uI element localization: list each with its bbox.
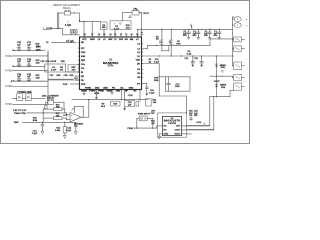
svg-text:+C18: +C18 [127,95,133,97]
svg-text:PWM: PWM [127,128,133,130]
svg-text:PGND: PGND [85,88,92,90]
svg-text:L_LOOP: L_LOOP [43,29,52,31]
svg-text:VOUT: VOUT [214,81,221,83]
svg-text:PVIN3: PVIN3 [6,69,14,72]
svg-text:PVIN4: PVIN4 [6,55,14,58]
svg-text:50V: 50V [193,35,197,37]
svg-text:50V: 50V [204,35,208,37]
svg-text:INDUCTOR CURRENT: INDUCTOR CURRENT [53,3,80,7]
svg-text:10nF: 10nF [175,86,180,88]
svg-text:PWM CTRL: PWM CTRL [14,113,26,115]
svg-text:50V: 50V [183,35,187,37]
svg-text:GND: GND [116,91,121,93]
svg-text:GND: GND [129,88,134,90]
svg-text:0Ω: 0Ω [156,39,159,41]
svg-text:OUT: OUT [176,126,181,128]
svg-text:GND: GND [14,122,19,124]
svg-text:4.7µF: 4.7µF [114,28,120,30]
svg-text:MAX4230: MAX4230 [74,122,84,125]
svg-text:POWER-ONE: POWER-ONE [17,92,32,94]
svg-text:POK: POK [81,84,86,86]
svg-text:PVIN2: PVIN2 [6,85,14,88]
svg-text:5VIN: 5VIN [36,47,41,49]
svg-text:0.1µF: 0.1µF [66,130,72,132]
svg-text:1%: 1% [189,115,192,117]
svg-text:DH: DH [137,63,141,65]
svg-text:GND: GND [103,88,108,90]
svg-text:ADJ: ADJ [72,69,76,72]
svg-text:PVIN1: PVIN1 [6,103,14,106]
svg-text:0.1µF: 0.1µF [149,92,155,94]
svg-text:SGND: SGND [81,91,88,93]
svg-text:FDS: FDS [176,44,181,46]
svg-text:1Ω: 1Ω [148,62,151,64]
svg-text:VOUT: VOUT [143,13,150,15]
svg-text:OFF: OFF [151,113,156,115]
svg-text:POK: POK [63,84,68,86]
svg-text:SGND: SGND [106,91,113,93]
svg-text:C9 R8: C9 R8 [50,61,57,63]
svg-text:C7 1µF: C7 1µF [66,41,74,43]
svg-text:ETP+: ETP+ [108,66,114,68]
svg-text:GND: GND [95,88,100,90]
svg-text:ROUT: ROUT [175,134,182,136]
svg-text:GND: GND [164,134,169,136]
svg-text:PG: PG [112,88,115,90]
svg-text:0.1%: 0.1% [196,122,201,124]
svg-text:10Ω: 10Ω [126,28,130,30]
svg-text:CS-: CS- [81,68,85,70]
svg-text:PWM INPUT: PWM INPUT [138,114,151,116]
svg-text:(50mA): (50mA) [63,7,71,10]
svg-text:ILIM: ILIM [81,56,85,58]
svg-text:AVIN: AVIN [36,49,41,52]
svg-text:PGND: PGND [98,91,105,93]
svg-text:TSOT23: TSOT23 [168,123,177,125]
svg-text:10Ω: 10Ω [36,77,40,79]
svg-text:SD: SD [81,42,84,44]
svg-text:VCC: VCC [82,39,87,41]
svg-text:0.1Ω: 0.1Ω [187,54,192,56]
svg-text:16V: 16V [194,115,198,117]
svg-text:OVP: OVP [119,39,124,41]
svg-text:REF: REF [81,60,86,62]
svg-text:NC: NC [120,88,124,90]
svg-text:VDD: VDD [136,60,141,62]
svg-text:1.8V TO 3.3V: 1.8V TO 3.3V [13,110,27,112]
svg-text:0.1µF: 0.1µF [32,133,38,135]
svg-text:NC: NC [133,91,137,93]
svg-text:AVIN: AVIN [90,38,95,41]
svg-text:DH: DH [125,39,129,41]
svg-text:0.1µF: 0.1µF [154,62,160,64]
svg-text:10Ω: 10Ω [102,27,106,29]
svg-text:10Ω: 10Ω [36,62,40,64]
svg-text:+C19: +C19 [94,93,100,95]
svg-text:4.7µH: 4.7µH [65,25,72,27]
svg-text:COUT: COUT [175,130,182,132]
svg-text:(20mA): (20mA) [47,97,54,100]
svg-text:50V: 50V [214,35,218,37]
svg-text:OSC: OSC [81,52,86,54]
svg-text:4.7µF: 4.7µF [51,70,57,72]
svg-text:PG: PG [137,83,140,85]
svg-text:EN: EN [81,76,84,78]
